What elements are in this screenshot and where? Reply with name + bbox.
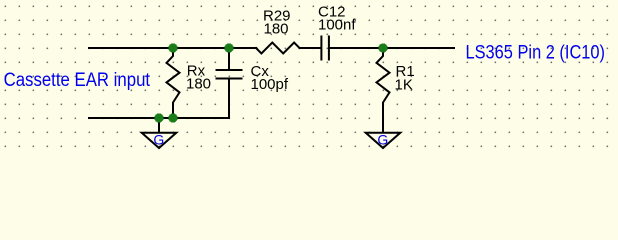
ground symbol right [366,133,401,148]
svg-text:Cassette EAR input: Cassette EAR input [4,70,151,91]
wire top-left from input to R29 [89,47,256,49]
node junction top R1 [378,43,387,52]
svg-text:100pf: 100pf [251,76,289,93]
wire ground stub [158,118,160,132]
node junction bottom Rx [168,113,177,122]
resistor R29 [256,43,300,54]
capacitor Cx [217,48,242,118]
wire C12 to output [330,47,454,49]
svg-text:180: 180 [264,21,289,38]
node junction top Cx [224,43,233,52]
node junction top Rx [168,43,177,52]
svg-text:G: G [153,131,164,147]
resistor Rx [167,48,180,118]
resistor R1 [377,48,390,132]
svg-text:G: G [377,131,388,147]
svg-text:LS365 Pin 2 (IC10): LS365 Pin 2 (IC10) [466,42,606,63]
node junction bottom ground [154,113,163,122]
svg-text:100nf: 100nf [318,17,356,34]
wire bottom return [89,117,229,119]
ground symbol left [142,133,177,148]
wire R29 to C12 [300,47,321,49]
capacitor C12 [321,37,329,60]
svg-text:180: 180 [186,76,211,93]
svg-text:1K: 1K [395,77,413,94]
